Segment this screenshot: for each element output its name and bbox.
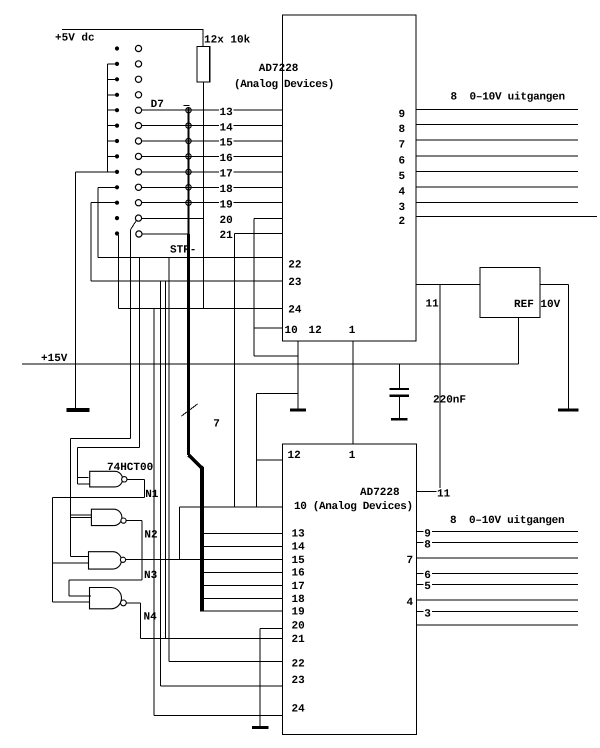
- output line: [417, 572, 578, 574]
- svg-text:N4: N4: [144, 612, 158, 624]
- ground symbol (REF): [558, 408, 579, 411]
- data bus (7 wires, thick): [187, 108, 189, 234]
- svg-text:1: 1: [349, 325, 356, 337]
- svg-text:8: 8: [399, 124, 406, 136]
- output line: [417, 583, 578, 585]
- DAC1 ground stem: [297, 341, 299, 409]
- svg-text:12: 12: [309, 325, 322, 337]
- ground symbol (connector): [67, 408, 90, 412]
- DAC2 pin 11 label: [437, 488, 451, 499]
- ground symbol (DAC1): [290, 409, 306, 412]
- wire row9 to ground: [76, 171, 115, 173]
- svg-text:74HCT00: 74HCT00: [107, 462, 153, 474]
- ground symbol (DAC2 pin20): [252, 726, 269, 729]
- NAND gate N3: [89, 552, 122, 569]
- DAC1 pin20 wire: [254, 217, 283, 219]
- stub to dot: [108, 94, 115, 96]
- svg-text:+15V: +15V: [41, 353, 68, 365]
- svg-text:8: 8: [424, 540, 431, 552]
- svg-text:D7: D7: [151, 99, 164, 111]
- stub to dot: [108, 140, 115, 142]
- svg-text:4: 4: [399, 187, 406, 199]
- DAC1 pin23 line: [91, 280, 282, 282]
- svg-text:21: 21: [292, 634, 306, 646]
- wire data line: [142, 186, 283, 188]
- svg-text:+5V dc: +5V dc: [55, 33, 95, 45]
- bus entry line: [202, 585, 282, 587]
- N1 output wire: [127, 478, 145, 480]
- connector right-column open contacts: [135, 45, 142, 237]
- svg-text:20: 20: [292, 621, 305, 633]
- svg-text:(Analog Devices): (Analog Devices): [234, 79, 334, 91]
- svg-text:N3: N3: [144, 570, 158, 582]
- wire REF bottom to +15V: [517, 318, 519, 364]
- svg-text:5: 5: [399, 171, 406, 183]
- DAC2 pin21 line: [141, 638, 283, 640]
- bus channel wire to N4 output line: [165, 281, 167, 639]
- svg-text:REF 10V: REF 10V: [514, 299, 561, 311]
- wire data line: [142, 125, 283, 127]
- wire row11 dot to DAC1 pin23 line: [91, 202, 115, 204]
- svg-text:220nF: 220nF: [433, 394, 466, 406]
- wire pin20/pin10 node to ground stem: [254, 355, 298, 357]
- output line: [417, 557, 578, 559]
- DAC1 pin21 wire: [235, 232, 283, 234]
- svg-text:21: 21: [220, 230, 234, 242]
- svg-text:17: 17: [220, 169, 233, 181]
- DAC2 pin10 line: [180, 506, 283, 508]
- output line: [416, 170, 578, 172]
- NAND gate N4: [90, 588, 122, 609]
- svg-text:3: 3: [424, 609, 431, 621]
- svg-text:13: 13: [220, 107, 234, 119]
- stub to dot: [108, 171, 115, 173]
- svg-text:AD7228: AD7228: [259, 63, 299, 75]
- stub to dot: [108, 63, 115, 65]
- bus entry line: [202, 610, 282, 612]
- svg-text:23: 23: [292, 675, 306, 687]
- connector left-column pin dots: [115, 46, 119, 235]
- svg-text:22: 22: [292, 659, 305, 671]
- stub to dot: [108, 155, 115, 157]
- svg-text:7: 7: [407, 555, 414, 567]
- svg-text:7: 7: [399, 140, 406, 152]
- bus channel wire to DAC2 pin24: [153, 308, 155, 715]
- wire DAC1 pin1 to DAC2 pin1: [352, 341, 354, 444]
- bus entry line: [202, 598, 282, 600]
- svg-text:13: 13: [292, 529, 306, 541]
- output line: [416, 124, 578, 126]
- wire data line: [142, 155, 283, 157]
- wire N3 node up to DAC1 pin21 wire: [179, 507, 181, 560]
- IC U1 AD7228 (top DAC): [282, 15, 416, 341]
- svg-text:14: 14: [292, 542, 306, 554]
- svg-text:15: 15: [220, 138, 234, 150]
- wire data line: [142, 171, 283, 173]
- wire data line: [142, 140, 283, 142]
- bus width slash: [182, 404, 198, 416]
- svg-text:24: 24: [288, 305, 302, 317]
- bus entry line: [202, 533, 282, 535]
- svg-text:10: 10: [285, 325, 298, 337]
- data bus top tick: [184, 105, 190, 107]
- svg-text:20: 20: [220, 215, 233, 227]
- +15V rail: [22, 363, 518, 365]
- data bus tap rings: [186, 108, 191, 206]
- svg-text:19: 19: [220, 199, 233, 211]
- output line: [416, 155, 578, 157]
- svg-text:12x 10k: 12x 10k: [204, 35, 251, 47]
- wire data line: [142, 109, 283, 111]
- svg-text:24: 24: [292, 704, 306, 716]
- svg-text:8 0–10V uitgangen: 8 0–10V uitgangen: [450, 515, 564, 527]
- svg-text:3: 3: [399, 202, 406, 214]
- bus channel wire STR to DAC2 pin22: [168, 257, 170, 661]
- DAC1 pin labels 13-19 (white bg over lines): [219, 106, 234, 117]
- IC U2 AD7228 (bottom DAC): [282, 444, 416, 735]
- svg-text:18: 18: [292, 594, 306, 606]
- svg-text:1: 1: [349, 450, 356, 462]
- svg-text:11: 11: [426, 299, 440, 311]
- svg-text:N1: N1: [145, 489, 159, 501]
- svg-text:5: 5: [424, 581, 431, 593]
- svg-text:16: 16: [292, 568, 305, 580]
- resistor network R1 12x 10k: [197, 47, 210, 83]
- output line: [416, 201, 578, 203]
- svg-text:15: 15: [292, 555, 306, 567]
- node STR- / DAC1 pin22 line: [98, 256, 282, 258]
- output line: [417, 611, 578, 613]
- DAC2 pin22 line: [169, 661, 282, 663]
- stub to dot: [108, 109, 115, 111]
- bus channel wire to DAC2 pin23: [160, 281, 162, 686]
- bus entry line: [202, 571, 282, 573]
- REF right lead to ground: [540, 283, 568, 285]
- DAC2 pin23 line: [161, 685, 283, 687]
- DAC2 pin24 line: [154, 714, 282, 716]
- NAND gate N1 (74HCT00): [90, 471, 123, 487]
- NAND gate N2: [91, 509, 121, 525]
- svg-text:17: 17: [292, 581, 305, 593]
- output line: [416, 186, 578, 188]
- svg-text:7: 7: [213, 418, 220, 430]
- DAC1 pin24 line: [119, 307, 283, 309]
- N4 output wire: [126, 602, 140, 604]
- output line: [417, 531, 578, 533]
- DAC2 pin20 wire to ground: [260, 627, 282, 629]
- DAC2 output pin labels 9..3: [423, 527, 432, 538]
- svg-text:12: 12: [288, 450, 301, 462]
- DAC1 pin11 line to REF: [416, 283, 480, 285]
- wire row12 lever down to N2/N3 inputs: [71, 437, 131, 439]
- +5V supply rail: [62, 28, 203, 30]
- svg-text:4: 4: [407, 597, 414, 609]
- switch row12: contact line to resistor wire: [142, 217, 204, 219]
- svg-text:AD7228: AD7228: [360, 487, 400, 499]
- DAC1 pin10 line: [254, 327, 283, 329]
- svg-text:18: 18: [220, 184, 234, 196]
- stub to dot: [108, 125, 115, 127]
- N1 output net to N3/N4 inputs: [53, 497, 145, 499]
- wire resistor bottom down to pin-24 line: [202, 82, 204, 308]
- svg-text:N2: N2: [144, 530, 157, 542]
- bus entry line: [202, 545, 282, 547]
- wire row10 dot to STR line: [98, 186, 115, 188]
- wire ground branch to DAC2 pin12: [257, 393, 298, 395]
- svg-text:16: 16: [220, 153, 233, 165]
- output line: [417, 542, 578, 544]
- N2 output wire to N4 input: [126, 520, 142, 522]
- wire row13 dot down to pin24 line: [118, 235, 120, 308]
- svg-text:9: 9: [399, 109, 406, 121]
- DAC2 pin12 line: [257, 459, 283, 461]
- svg-text:10 (Analog Devices): 10 (Analog Devices): [294, 501, 413, 513]
- wire REF node down to DAC2 pin11: [439, 284, 441, 491]
- switch row12 lever: [130, 221, 136, 230]
- N3 output line to DAC2 pin15: [126, 559, 283, 561]
- svg-text:19: 19: [292, 607, 305, 619]
- svg-text:11: 11: [437, 488, 451, 500]
- svg-text:23: 23: [288, 277, 302, 289]
- ground symbol (capacitor): [391, 418, 408, 421]
- wire data line: [142, 202, 283, 204]
- svg-text:22: 22: [288, 260, 301, 272]
- svg-text:8 0–10V uitgangen: 8 0–10V uitgangen: [451, 92, 565, 104]
- output line: [416, 215, 597, 217]
- svg-text:6: 6: [399, 156, 406, 168]
- svg-text:14: 14: [220, 122, 234, 134]
- output line: [416, 109, 578, 111]
- wire STR down to N1 inputs: [139, 257, 141, 447]
- switch row13: contact line to bus: [142, 233, 188, 235]
- output line: [417, 599, 578, 601]
- svg-text:STR-: STR-: [170, 244, 196, 256]
- ground bus joining connector dots rows 2-9: [107, 64, 109, 172]
- voltage reference U3 REF 10V: [480, 268, 540, 318]
- output line: [416, 139, 578, 141]
- stub to dot: [108, 78, 115, 80]
- capacitor C1 220nF: [398, 364, 400, 388]
- svg-text:2: 2: [399, 216, 406, 228]
- wire row12 lever down: [129, 230, 131, 438]
- output line: [417, 624, 578, 626]
